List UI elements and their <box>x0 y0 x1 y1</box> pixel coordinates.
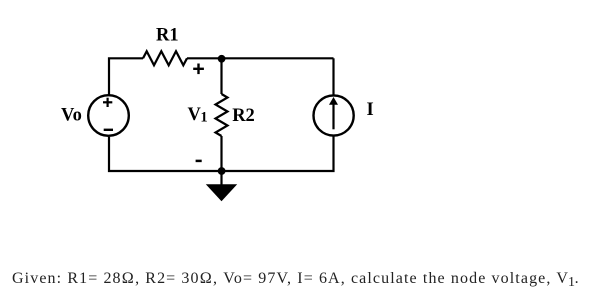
minus sign inside Vo <box>104 129 113 131</box>
given problem text <box>12 270 580 290</box>
minus polarity sign of V1 <box>196 160 202 163</box>
svg-text:R1: R1 <box>156 26 179 46</box>
node A (top junction dot) <box>218 55 226 63</box>
wire: ground stub <box>220 171 222 185</box>
plus polarity sign of V1 <box>193 64 204 75</box>
wire: left rail bottom segment <box>109 137 222 171</box>
svg-text:Vo: Vo <box>61 106 82 126</box>
wire: from R2 down to bottom node <box>220 136 222 171</box>
node B (bottom junction dot) <box>218 167 226 175</box>
current source I circle <box>314 95 354 135</box>
wire: from node A down to R2 <box>220 58 222 94</box>
svg-text:Given: R1= 28Ω, R2= 30Ω, Vo= 9: Given: R1= 28Ω, R2= 30Ω, Vo= 97V, I= 6A,… <box>12 270 580 290</box>
resistor R2 zigzag <box>216 94 228 136</box>
label R2 <box>232 106 255 126</box>
label R1 <box>156 26 179 46</box>
svg-text:R2: R2 <box>232 106 255 126</box>
svg-text:I: I <box>367 100 374 120</box>
ground <box>206 184 237 201</box>
resistor R1 zigzag <box>143 51 187 65</box>
label Vo <box>61 106 82 126</box>
current source arrow <box>329 97 338 129</box>
wire: right rail top segment <box>332 58 334 94</box>
wire: bottom segment node B to right corner <box>222 137 334 172</box>
voltage source Vo circle <box>88 95 129 136</box>
label I <box>367 100 374 120</box>
wire: top-left horizontal segment <box>109 58 143 94</box>
plus sign inside Vo <box>103 98 112 107</box>
wire: top segment from R1 to right corner <box>187 57 334 59</box>
label V1 <box>188 105 208 126</box>
svg-text:V1: V1 <box>188 105 208 126</box>
